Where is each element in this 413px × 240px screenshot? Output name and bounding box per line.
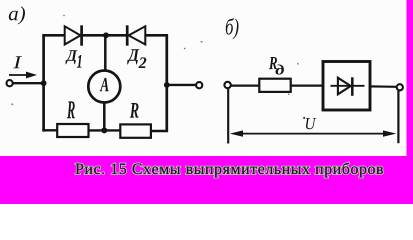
wire right vertical — [165, 34, 168, 132]
label б) — [226, 18, 239, 39]
diode Д1 — [65, 25, 82, 45]
wire bottom rail middle — [89, 129, 121, 131]
label Д2 — [127, 49, 146, 68]
label R left — [67, 101, 75, 118]
wire left vertical — [42, 34, 45, 131]
terminal left (б) — [224, 82, 230, 88]
wire bottom rail left — [42, 129, 57, 131]
wire top rail right — [145, 34, 168, 37]
wire to right terminal — [167, 84, 196, 86]
resistor R left — [57, 124, 88, 137]
junction left node — [41, 80, 47, 86]
diode Д2 — [127, 25, 145, 45]
wire ammeter top — [104, 35, 107, 70]
wire left terminal to node — [13, 82, 44, 84]
ammeter A — [88, 71, 120, 103]
wire Rд to rectifier box — [291, 84, 323, 86]
diode inside rectifier box — [331, 77, 365, 96]
rectifier box — [323, 62, 370, 111]
junction bottom center — [101, 127, 107, 133]
wire box to right terminal — [370, 85, 397, 88]
scan specks — [12, 15, 306, 119]
wire top rail left — [42, 34, 65, 37]
wire bottom rail right — [151, 130, 168, 132]
label I — [13, 56, 22, 68]
label а) — [9, 6, 25, 24]
resistor Rд — [259, 79, 290, 92]
label R right — [130, 103, 139, 118]
dimension line U — [230, 130, 396, 136]
terminal right (б) — [397, 84, 403, 90]
wire terminal to Rд — [231, 84, 260, 86]
label Rд — [269, 57, 284, 75]
junction right node — [164, 82, 170, 88]
current arrow I — [9, 72, 37, 79]
dropline left — [227, 89, 229, 144]
dropline right — [397, 91, 399, 143]
caption Рис. 15 Схемы выпрямительных приборов — [76, 163, 384, 178]
label Д1 — [66, 50, 82, 67]
resistor R right — [120, 124, 151, 137]
terminal right (а) — [196, 82, 202, 88]
wire top rail middle — [83, 34, 127, 37]
label U — [306, 118, 316, 129]
junction top center — [103, 32, 109, 38]
terminal left (а) — [7, 80, 13, 86]
wire ammeter bottom — [103, 103, 106, 131]
